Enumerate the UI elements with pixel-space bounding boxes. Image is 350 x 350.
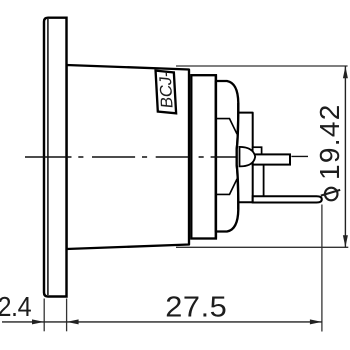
length dimension line (2, 321, 322, 323)
washer chamfer facet bottom (216, 179, 237, 194)
centre solder terminal pin (253, 154, 290, 164)
connector main body (tapered cylinder side view) (67, 65, 190, 249)
ground lug tab (253, 196, 322, 202)
flange edge line (47, 19, 49, 295)
mounting flange plate (44, 18, 67, 297)
svg-text:2.4: 2.4 (0, 291, 32, 323)
diameter extension line top (176, 65, 348, 67)
model label box BCJ- (156, 71, 177, 114)
svg-text:BCJ-: BCJ- (156, 71, 177, 109)
rear hex nut (191, 75, 216, 238)
washer ring edge over cylinder (237, 103, 239, 210)
svg-text:27.5: 27.5 (165, 291, 227, 323)
rear cylinder (238, 113, 253, 203)
diameter extension line bottom (176, 246, 348, 248)
centre line tail (291, 155, 308, 157)
nut/washer boundary line (215, 75, 217, 238)
extension line flange right (66, 299, 68, 332)
insulator tip (rounded) (240, 147, 256, 167)
arrow right at lug tip (310, 319, 322, 324)
extension line lug tip (321, 205, 323, 332)
arrow up (343, 66, 348, 78)
centre line (dash-dot) (25, 156, 236, 158)
arrow right at flange left (32, 319, 44, 324)
extension line flange left (43, 299, 45, 332)
arrow left at flange right (67, 319, 79, 324)
svg-text:19.42: 19.42 (314, 103, 345, 180)
solder pot rear face (263, 165, 265, 197)
arrow down (343, 235, 348, 247)
diameter symbol circle (325, 188, 338, 201)
lock washer ring (rounded profile) (216, 81, 238, 232)
washer chamfer facet top (216, 119, 237, 134)
diameter dimension line (344, 66, 346, 247)
terminal step notch (253, 147, 262, 154)
diameter symbol slash (321, 190, 340, 196)
